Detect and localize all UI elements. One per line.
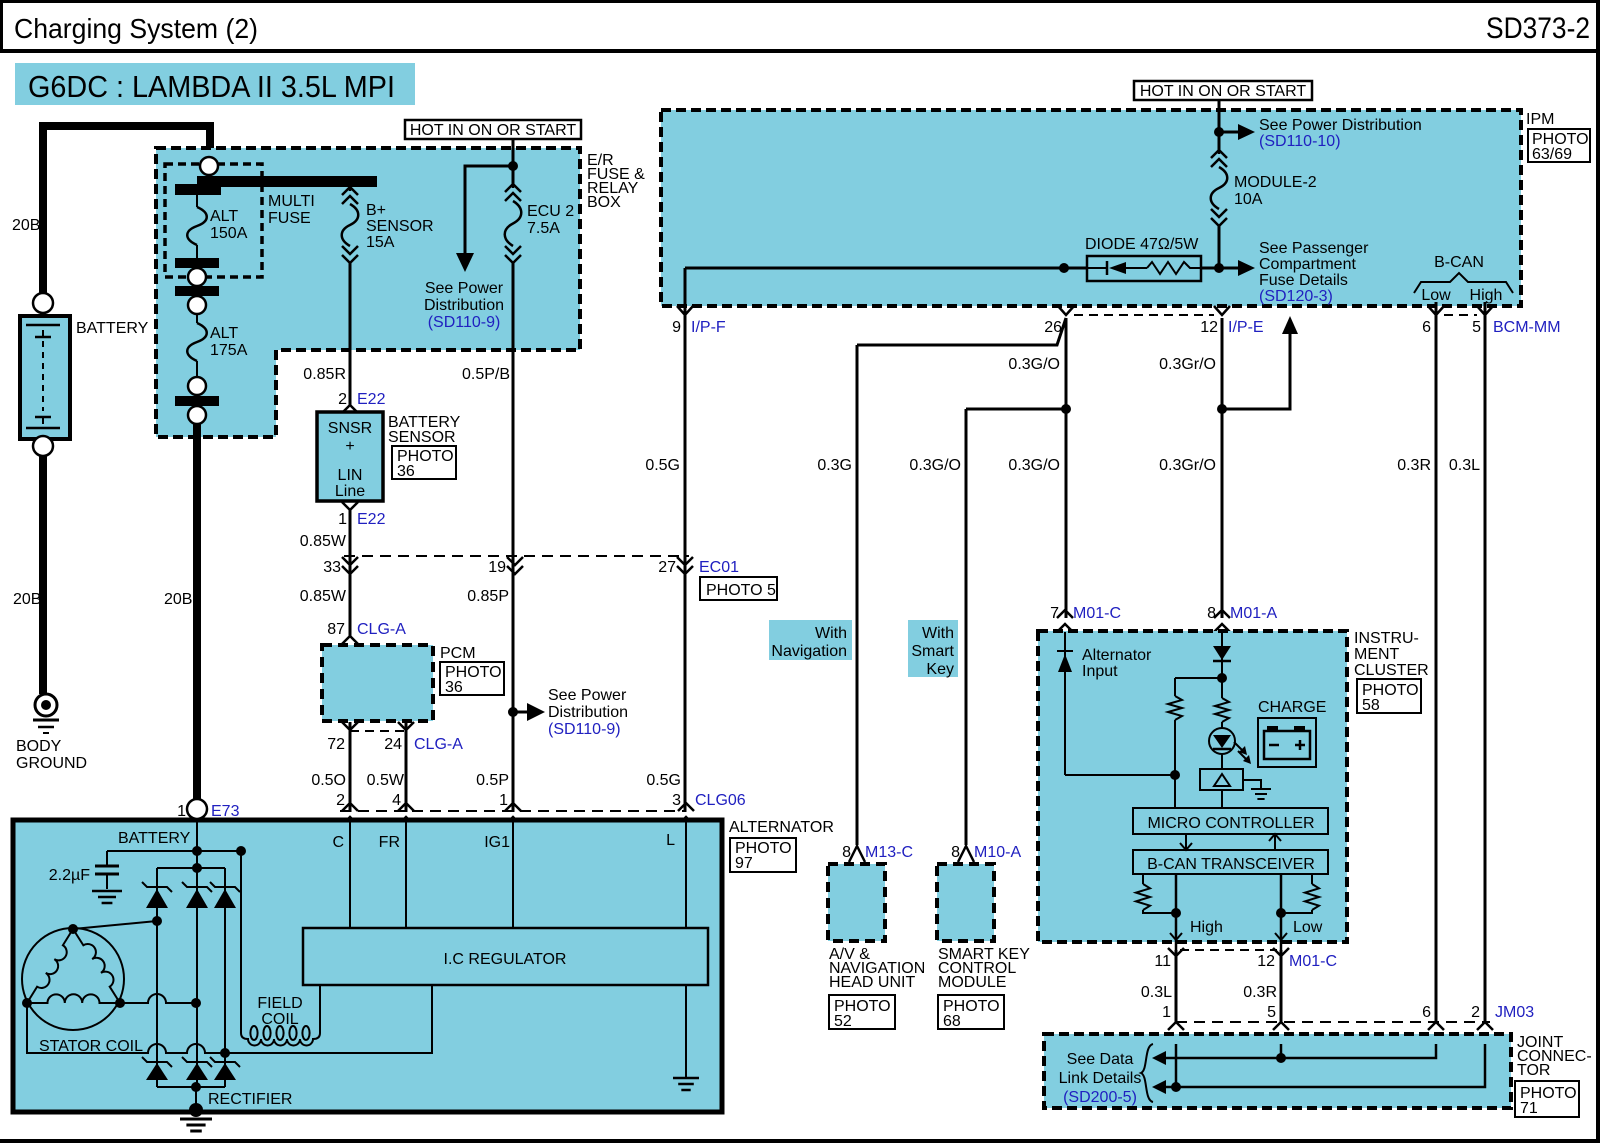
page border top [0,0,1600,3]
capacitor 2.2uF [106,851,108,866]
body ground symbol [35,694,57,716]
svg-text:3: 3 [672,792,681,809]
wire LED to buzzer [1221,753,1223,769]
svg-text:BOX: BOX [587,194,621,211]
junction node data link lower [1171,1082,1181,1092]
svg-text:BATTERY: BATTERY [76,320,149,337]
svg-text:Distribution: Distribution [424,297,504,314]
IC regulator box [303,928,708,985]
fuse ALT 175A [196,314,198,323]
wire IPM to pin 9 [684,268,687,306]
svg-text:See Data: See Data [1067,1051,1134,1068]
svg-text:MULTI: MULTI [268,193,315,210]
wire 20B alternator feed [193,424,201,799]
svg-text:PCM: PCM [440,645,476,662]
svg-text:L: L [666,832,675,849]
svg-text:0.5G: 0.5G [646,772,681,789]
wire 0.3R BCM low to JM03-6 [1435,316,1438,1022]
field coil feed wire [240,851,242,1029]
wire branch to power distribution arrow [465,166,513,253]
with smart key tag [908,620,958,677]
buzzer box (cluster) [1200,769,1243,790]
battery BATTERY [20,316,70,439]
wire 0.3G/O pin 26 down [1065,318,1068,618]
svg-text:Fuse Details: Fuse Details [1259,272,1348,289]
junction node low [1276,908,1286,918]
svg-text:0.5O: 0.5O [311,772,346,789]
svg-text:0.3G: 0.3G [817,457,852,474]
svg-text:Key: Key [926,661,954,678]
LED light arrows [1234,742,1243,751]
arrow b-can to micro [1274,835,1276,850]
connector line CLG06 dashed [340,810,686,812]
svg-text:5: 5 [1472,319,1481,336]
arrow exit pin 11 [1170,933,1182,940]
svg-text:BATTERY: BATTERY [118,830,191,847]
wire JM03-2 to data link arrow lower [1166,1044,1485,1087]
rectifier diode bottom-middle [182,1057,212,1067]
svg-text:52: 52 [834,1013,852,1030]
buzzer ground [1243,780,1261,789]
connector dashes below PCM [350,730,406,732]
charge diode (cluster) [1221,632,1223,678]
svg-text:87: 87 [327,621,345,638]
svg-text:MODULE-2: MODULE-2 [1234,174,1317,191]
wire 0.3Gr/O pin 12 down [1221,318,1224,618]
svg-text:5: 5 [1267,1004,1276,1021]
svg-text:1: 1 [1162,1004,1171,1021]
arrow exit pin 12 [1275,933,1287,940]
connector circle 2 [188,296,206,314]
connector circle 4 [188,406,206,424]
wire branch to left resistor [1175,677,1222,679]
connector line EC01 dashed [344,555,689,557]
svg-text:DIODE 47Ω/5W: DIODE 47Ω/5W [1085,236,1199,253]
photo 52 box [829,995,895,1029]
svg-text:20B: 20B [164,591,192,608]
wire alternator input to microcontroller branch [1065,774,1175,776]
connector circle 1 [188,268,206,286]
svg-text:12: 12 [1200,319,1218,336]
svg-text:FUSE: FUSE [268,210,311,227]
fuse ALT 150A [196,195,198,207]
wire 0.5P/B - 0.85P - 0.5P ignition feed [512,263,515,812]
fuse MODULE-2 10A [1218,150,1221,154]
wire 0.85R B+ sensor feed [349,263,352,406]
wire 0.85W sensor to EC01 [349,510,352,637]
photo 5 box [700,577,777,600]
junction node 12 branch [1217,404,1227,414]
svg-text:2: 2 [1471,1004,1480,1021]
rectifier diode top-right [210,882,240,892]
pin 9 connector I/P-F [677,306,693,315]
svg-text:IG1: IG1 [484,834,510,851]
wire HOT to module2 fuse [1218,100,1221,151]
resistor b-can left [1142,874,1144,884]
svg-text:0.3G/O: 0.3G/O [909,457,961,474]
svg-text:0.3G/O: 0.3G/O [1008,457,1060,474]
svg-text:PHOTO 5: PHOTO 5 [706,582,776,599]
wire battery positive cable 20B (battery to fuse box) [43,126,210,297]
svg-text:CHARGE: CHARGE [1258,699,1326,716]
svg-text:B+: B+ [366,202,386,219]
svg-text:M01-C: M01-C [1289,953,1337,970]
engine banner G6DC : LAMBDA II 3.5L MPI [15,63,415,105]
svg-text:(SD110-9): (SD110-9) [548,721,621,738]
pin 6 connector BCM-MM [1428,306,1444,315]
junction node data link upper [1276,1053,1286,1063]
pin 24 connector CLG-A [398,722,414,730]
junction node rectifier bottom [191,1082,201,1092]
svg-text:2: 2 [336,792,345,809]
svg-text:HEAD UNIT: HEAD UNIT [829,974,915,991]
svg-text:B-CAN TRANSCEIVER: B-CAN TRANSCEIVER [1147,856,1315,873]
svg-text:RECTIFIER: RECTIFIER [208,1091,292,1108]
svg-text:Compartment: Compartment [1259,256,1356,273]
page border right [1596,0,1600,1143]
brace see data link [1141,1044,1153,1102]
svg-text:58: 58 [1362,697,1380,714]
junction node see power distribution (SD110-9) mid [508,707,518,717]
wire B-CAN low inside IPM [1435,302,1438,316]
alternator case ground symbol [180,1118,212,1121]
svg-text:15A: 15A [366,234,395,251]
svg-text:G6DC : LAMBDA II 3.5L MPI: G6DC : LAMBDA II 3.5L MPI [28,69,395,104]
rectifier diode top-left [142,882,172,892]
wire 0.5G alternator L to EC01 and IPM [684,307,687,812]
connector line M01-C bottom dashed [1180,949,1277,951]
charge LED lamp [1221,722,1223,729]
svg-text:0.3Gr/O: 0.3Gr/O [1159,356,1216,373]
connector line JM03 dashed [1176,1021,1490,1023]
pin 33 EC01 [342,557,358,565]
svg-text:M01-A: M01-A [1230,605,1277,622]
svg-text:0.5P/B: 0.5P/B [462,366,510,383]
wire stator phase2 to rectifier middle (hop over left) [120,994,196,1003]
svg-text:LIN: LIN [338,467,363,484]
hot in on or start box (IPM) [1134,81,1312,100]
rectifier diode bottom-right [210,1057,240,1067]
title underline [0,49,1600,53]
connector circle fuse box input [200,157,218,175]
svg-text:7: 7 [1050,605,1059,622]
svg-text:175A: 175A [210,342,248,359]
svg-text:1: 1 [338,511,347,528]
svg-text:0.5P: 0.5P [476,772,509,789]
arrow micro to b-can [1185,834,1187,849]
hot in on or start box (E/R) [405,120,581,139]
svg-text:Input: Input [1082,663,1118,680]
svg-text:B-CAN: B-CAN [1434,254,1484,271]
alternator input wire [1064,632,1066,775]
battery sensor SNSR box [317,412,383,501]
svg-text:BCM-MM: BCM-MM [1493,319,1561,336]
rectifier diode bottom-left [142,1057,172,1067]
wire 0.5O PCM to alternator C [349,722,352,812]
svg-text:6: 6 [1422,319,1431,336]
wire diode rail horizontal [685,267,1087,270]
svg-text:JM03: JM03 [1495,1004,1534,1021]
svg-text:24: 24 [384,736,402,753]
svg-text:71: 71 [1520,1100,1538,1117]
svg-text:63/69: 63/69 [1532,146,1572,163]
svg-text:2: 2 [338,391,347,408]
svg-text:36: 36 [445,679,463,696]
wire b-can high down [1175,874,1178,950]
arrow see passenger compartment fuse details SD120-3 [1238,260,1255,276]
multi fuse box outline [165,164,262,277]
wire field coil to regulator [319,985,321,1029]
svg-text:0.5G: 0.5G [645,457,680,474]
junction node diode right [1214,263,1224,273]
svg-text:HOT IN ON OR START: HOT IN ON OR START [410,122,576,139]
pin 19 EC01 [507,557,523,565]
svg-text:E73: E73 [211,803,240,820]
svg-text:CLG-A: CLG-A [357,621,406,638]
instrument cluster box [1038,631,1347,942]
svg-text:8: 8 [1207,605,1216,622]
stator node top [68,924,78,934]
svg-text:Distribution: Distribution [548,704,628,721]
svg-text:33: 33 [323,559,341,576]
wire stator phase1 to rectifier left [73,921,157,929]
wire JM03-1 to data link [1175,1044,1178,1087]
svg-text:FIELD: FIELD [257,995,302,1012]
svg-text:With: With [922,625,954,642]
arrow see power distribution SD110-9 (E/R) [456,253,474,272]
junction node field coil feed [236,846,246,856]
svg-text:MENT: MENT [1354,646,1400,663]
photo 68 box [938,995,1004,1029]
alternator input arrow [1057,650,1073,652]
resistor left (cluster) [1168,696,1182,720]
wire buzzer to microcontroller [1221,790,1223,808]
junction node ECU2 branch [508,161,518,171]
svg-text:SNSR: SNSR [328,420,372,437]
junction node high [1171,908,1181,918]
svg-text:High: High [1470,287,1503,304]
svg-text:2.2µF: 2.2µF [49,867,90,884]
svg-text:Low: Low [1293,919,1323,936]
svg-text:Link Details: Link Details [1059,1070,1142,1087]
svg-text:68: 68 [943,1013,961,1030]
svg-text:20B: 20B [12,217,40,234]
svg-text:High: High [1190,919,1223,936]
svg-text:M01-C: M01-C [1073,605,1121,622]
svg-text:BODY: BODY [16,738,62,755]
E/R fuse and relay box outline [156,148,580,437]
with navigation tag [769,620,852,660]
wire branch with up arrow to I/P-E [1222,330,1290,409]
resistor b-can right [1311,874,1313,884]
svg-text:0.85W: 0.85W [300,588,347,605]
fuse ECU 2 7.5A [512,184,515,188]
svg-text:12: 12 [1257,953,1275,970]
junction node capacitor rail [192,846,202,856]
wire battery node inside alternator [196,819,198,869]
svg-text:10A: 10A [1234,191,1263,208]
svg-text:CLG-A: CLG-A [414,736,463,753]
wire capacitor rail [107,850,241,852]
svg-text:ALT: ALT [210,325,238,342]
svg-text:IPM: IPM [1526,111,1554,128]
svg-text:TOR: TOR [1517,1062,1550,1079]
svg-text:ALT: ALT [210,208,238,225]
B-CAN brace [1414,273,1513,293]
svg-text:SD373-2: SD373-2 [1486,12,1590,45]
wire rectifier to case ground [195,1087,197,1110]
wire 0.3G from pin 26 to navigation unit [857,318,1066,345]
wire 0.3L BCM high to JM03-2 [1484,316,1487,1022]
stator node left [22,998,32,1008]
svg-text:I/P-E: I/P-E [1228,319,1264,336]
fuse terminal bar 2 [175,286,219,296]
field coil FIELD COIL [241,1029,320,1046]
junction node IPM feed [1214,127,1224,137]
IPM box [661,110,1521,306]
svg-text:1: 1 [177,803,186,820]
svg-text:11: 11 [1154,953,1171,970]
resistor charge lamp [1221,678,1223,698]
junction node charge branch [1217,673,1227,683]
svg-text:E22: E22 [357,391,386,408]
bus bar thick [197,176,377,187]
svg-text:6: 6 [1422,1004,1431,1021]
svg-text:19: 19 [488,559,506,576]
svg-text:SENSOR: SENSOR [388,429,456,446]
connector dashes 6-5 [1444,314,1477,316]
wire rectifier bottom rail [157,1086,225,1088]
junction node rectifier top rail [192,863,202,873]
pin 72 connector CLG-A [342,722,358,730]
svg-text:4: 4 [392,792,401,809]
fuse terminal bar 3 [175,396,219,406]
svg-text:I/P-F: I/P-F [691,319,726,336]
photo 36 box (battery sensor) [392,446,456,479]
svg-text:36: 36 [397,463,415,480]
connector dashes 26-12 [1074,314,1214,316]
wire JM03-5 to data link [1280,1044,1283,1058]
page border left (header) [0,0,3,52]
pin 27 EC01 [677,557,693,565]
wire battery negative cable 20B to body ground [39,456,47,694]
svg-text:See Passenger: See Passenger [1259,240,1369,257]
junction node 26 branch [1061,404,1071,414]
fuse B+ SENSOR 15A [349,187,352,191]
svg-text:(SD200-5): (SD200-5) [1063,1089,1137,1106]
svg-text:0.3Gr/O: 0.3Gr/O [1159,457,1216,474]
svg-text:20B: 20B [13,591,41,608]
svg-text:ECU 2: ECU 2 [527,203,574,220]
svg-text:Line: Line [335,483,365,500]
diode resistor box [1087,256,1201,281]
pin 12 connector I/P-E [1214,306,1230,315]
svg-text:INSTRU-: INSTRU- [1354,630,1419,647]
wire b-can low down [1280,874,1283,950]
svg-text:ALTERNATOR: ALTERNATOR [729,819,834,836]
svg-text:I.C REGULATOR: I.C REGULATOR [444,951,567,968]
wire B-CAN high inside IPM [1484,302,1487,316]
svg-text:0.3R: 0.3R [1243,984,1277,1001]
svg-text:Charging System (2): Charging System (2) [14,13,258,44]
svg-text:SENSOR: SENSOR [366,218,434,235]
svg-text:C: C [332,834,344,851]
pin 5 connector BCM-MM [1477,306,1493,315]
rectifier top rail verticals [156,868,158,1087]
A/V navigation head unit box [828,864,885,941]
svg-text:0.85R: 0.85R [303,366,346,383]
svg-text:Alternator: Alternator [1082,647,1152,664]
svg-text:0.3R: 0.3R [1397,457,1431,474]
svg-text:150A: 150A [210,225,248,242]
fuse terminal bar 1 [175,258,219,268]
svg-text:(SD110-10): (SD110-10) [1259,133,1341,150]
stator node right [115,998,125,1008]
battery terminal connector circle bottom [33,436,53,456]
svg-text:HOT IN ON OR START: HOT IN ON OR START [1140,83,1306,100]
svg-text:0.85P: 0.85P [467,588,509,605]
battery terminal connector circle top [33,293,53,313]
alternator L ground symbol [673,1077,699,1080]
junction node diode left [1059,263,1069,273]
svg-text:0.5W: 0.5W [367,772,405,789]
stator coil circle [22,928,124,1030]
svg-text:7.5A: 7.5A [527,220,560,237]
wire stator phase3 bottom run to regulator (hops) [27,985,432,1053]
wire regulator to lamp ground [685,985,687,1078]
PCM box [322,645,433,721]
svg-text:EC01: EC01 [699,559,739,576]
svg-text:M10-A: M10-A [974,844,1021,861]
svg-text:Low: Low [1421,287,1451,304]
wire 0.3L cluster to JM03-1 [1175,950,1178,1022]
pin 1 connector E22 below sensor [342,502,358,510]
svg-text:1: 1 [499,792,508,809]
alternator box [13,820,722,1112]
arrow see power distribution SD110-9 (mid) [513,711,527,714]
stator coil windings [27,929,73,1003]
svg-text:27: 27 [658,559,676,576]
rectifier diode top-middle [182,882,212,892]
svg-text:COIL: COIL [261,1011,298,1028]
svg-text:MODULE: MODULE [938,974,1006,991]
photo 36 box (PCM) [440,662,504,695]
svg-text:CLUSTER: CLUSTER [1354,662,1429,679]
svg-text:M13-C: M13-C [865,844,913,861]
svg-text:E22: E22 [357,511,386,528]
pin 26 connector I/P-E [1058,306,1074,315]
wire 0.3G/O branch to smart key [966,408,1066,411]
svg-text:CLG06: CLG06 [695,792,746,809]
svg-text:0.85W: 0.85W [300,533,347,550]
svg-text:(SD120-3): (SD120-3) [1259,288,1333,305]
joint connector box [1044,1034,1511,1108]
smart key control module box [937,864,994,941]
svg-text:0.3L: 0.3L [1141,984,1172,1001]
page border bottom [0,1139,1600,1143]
svg-text:Smart: Smart [911,643,954,660]
svg-text:See Power: See Power [425,280,504,297]
svg-text:+: + [345,438,354,455]
b-can transceiver box [1133,850,1328,874]
wire fuse to diode rail [1218,226,1221,268]
charge battery icon [1258,718,1316,767]
svg-text:See Power: See Power [548,687,627,704]
svg-text:(SD110-9): (SD110-9) [428,314,501,331]
junction node micro input [1170,770,1180,780]
photo 71 box [1515,1081,1579,1117]
svg-text:GROUND: GROUND [16,755,87,772]
